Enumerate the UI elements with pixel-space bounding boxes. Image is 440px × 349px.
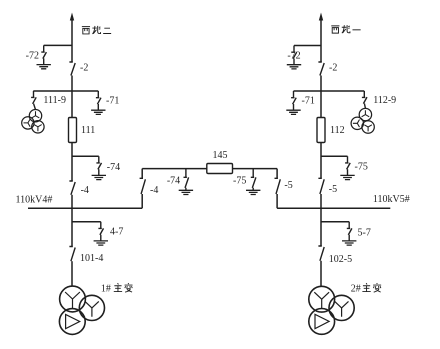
- svg-text:102-5: 102-5: [329, 254, 352, 265]
- transformer T2 HV winding (Y): [309, 286, 335, 312]
- disconnector 112-9 (to PT): [362, 91, 367, 109]
- svg-text:-74: -74: [107, 162, 120, 173]
- disconnector -4 (bus-tie, left): [140, 169, 146, 209]
- svg-text:-4: -4: [150, 185, 158, 196]
- voltage transformer PT1 winding 2: [22, 117, 34, 129]
- label 2#主变: [351, 283, 381, 295]
- earthing switch -74 (bus-tie): [184, 169, 189, 191]
- earthing switch -75 (right): [345, 156, 350, 175]
- wire: transformer 2 branch below bus 5: [320, 208, 322, 246]
- ground (below 5-7): [342, 241, 356, 245]
- svg-text:-72: -72: [287, 51, 300, 62]
- voltage transformer PT2 (112-9) winding 1: [359, 108, 371, 120]
- disconnector 111-9 (to PT): [31, 91, 36, 110]
- disconnector -2 (right feeder): [318, 62, 324, 76]
- voltage transformer PT1 winding 3: [32, 121, 44, 133]
- svg-text:101-4: 101-4: [80, 253, 103, 264]
- ground (below right -75): [340, 175, 354, 179]
- svg-text:-5: -5: [284, 180, 292, 191]
- svg-text:110kV5#: 110kV5#: [373, 194, 410, 205]
- ground (below tie -75): [246, 190, 260, 194]
- transformer T1 HV winding (Y): [60, 286, 86, 312]
- wire: horizontal branch for -71 and 112-9 (right): [294, 90, 365, 92]
- svg-text:-75: -75: [355, 162, 368, 173]
- svg-text:1#: 1#: [101, 284, 111, 295]
- svg-text:-72: -72: [26, 51, 39, 62]
- ground (below 4-7): [94, 241, 108, 245]
- svg-text:-4: -4: [81, 185, 89, 196]
- ground (below right -72): [287, 65, 301, 69]
- svg-text:-5: -5: [329, 184, 337, 195]
- wire: branch to earthing switch -72: [44, 44, 72, 46]
- wire: branch to earthing switch -75 (right): [321, 155, 348, 157]
- svg-text:-74: -74: [167, 176, 180, 187]
- voltage transformer PT2 winding 3: [362, 121, 374, 133]
- ground (below left -74): [92, 175, 106, 179]
- wire: 102-5 down to transformer 2: [320, 261, 322, 287]
- wire: transformer 1 branch below bus 4: [71, 208, 73, 246]
- disconnector 102-5: [318, 246, 324, 261]
- wire: right feeder between breaker 112 and -5: [320, 143, 322, 179]
- wire: branch to earthing switch -72 (right): [294, 45, 321, 47]
- voltage transformer PT1 (111-9) winding 1: [29, 110, 41, 122]
- ground (below left -71): [91, 110, 105, 114]
- earthing switch -75 (bus-tie): [251, 169, 256, 191]
- wire: branch to earthing switch -74 (left): [72, 155, 99, 157]
- wire: branch to earthing switch 4-7: [72, 221, 101, 223]
- earthing switch -72: [41, 45, 46, 64]
- wire: left feeder between breaker 111 and -4: [71, 143, 73, 182]
- disconnector 101-4: [69, 247, 75, 262]
- circuit breaker 112: [317, 118, 325, 143]
- svg-text:111-9: 111-9: [43, 95, 66, 106]
- disconnector -5 (right feeder to bus): [318, 178, 324, 194]
- svg-text:145: 145: [213, 150, 228, 161]
- earthing switch -72 (right): [292, 46, 297, 65]
- disconnector -5 (bus-tie, right): [275, 169, 281, 209]
- svg-text:-71: -71: [106, 96, 119, 107]
- svg-text:110kV4#: 110kV4#: [16, 194, 53, 205]
- earthing switch 4-7: [98, 222, 103, 241]
- voltage transformer PT2 winding 2: [351, 117, 363, 129]
- wire: left feeder between -2 and breaker 111: [71, 76, 73, 118]
- wire: right feeder into bus 5: [320, 194, 322, 208]
- wire: branch to earthing switch 5-7: [321, 221, 349, 223]
- disconnector -4 (left feeder to bus): [69, 181, 75, 195]
- wire: 101-4 down to transformer 1: [71, 261, 73, 286]
- transformer T2 LV winding (delta): [309, 309, 335, 335]
- wire: bus-tie horizontal right section: [233, 168, 278, 170]
- wire: left feeder into bus 4: [71, 195, 73, 208]
- svg-text:112: 112: [330, 125, 345, 136]
- bus 110kV5#: [277, 207, 390, 209]
- transformer T2 MV winding (Y): [329, 295, 354, 320]
- wire: 西龙二 incoming line (top segment): [71, 20, 73, 63]
- label 1#主变: [101, 283, 133, 295]
- svg-text:-75: -75: [233, 176, 246, 187]
- incoming line arrow (feeder 西龙一): [319, 13, 323, 21]
- svg-text:112-9: 112-9: [373, 95, 396, 106]
- bus 110kV4#: [28, 207, 142, 209]
- disconnector -2 (left feeder): [69, 62, 75, 76]
- circuit breaker 111: [69, 118, 77, 143]
- earthing switch -74 (left): [96, 156, 101, 175]
- ground (below right -71): [286, 110, 300, 114]
- svg-text:4-7: 4-7: [110, 227, 123, 238]
- wire: bus-tie horizontal left section: [142, 168, 207, 170]
- earthing switch -71 (left): [96, 91, 101, 110]
- ground (below tie -74): [179, 190, 193, 194]
- wire: 西龙一 incoming line (top segment): [320, 20, 322, 63]
- label 西龙二: [82, 26, 111, 34]
- svg-text:-2: -2: [80, 62, 88, 73]
- svg-text:-71: -71: [302, 96, 315, 107]
- transformer T1 LV winding (delta): [59, 309, 85, 335]
- transformer T1 MV winding (Y): [79, 295, 104, 320]
- earthing switch -71 (right): [291, 91, 296, 110]
- label 西龙一: [331, 25, 360, 33]
- svg-text:-2: -2: [329, 62, 337, 73]
- earthing switch 5-7: [347, 222, 352, 241]
- circuit breaker 145: [207, 164, 233, 174]
- ground (below -72): [37, 65, 51, 69]
- wire: right feeder between -2 and breaker 112: [320, 76, 322, 118]
- wire: horizontal branch for 111-9 and -71: [33, 90, 98, 92]
- svg-text:2#: 2#: [351, 284, 361, 295]
- incoming line arrow (feeder 西龙二): [70, 13, 74, 21]
- svg-text:5-7: 5-7: [358, 227, 371, 238]
- svg-text:111: 111: [81, 125, 95, 136]
